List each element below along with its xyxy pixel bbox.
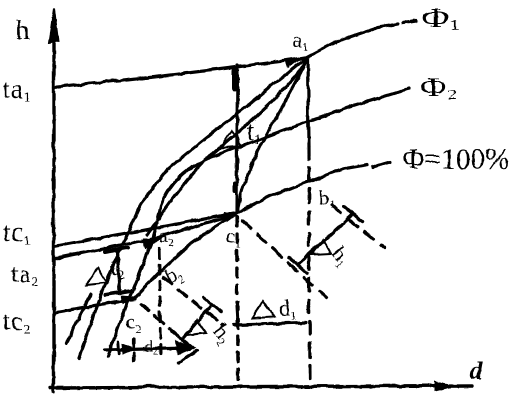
svg-text:tc2: tc2 <box>2 306 31 337</box>
delta d1 left serif <box>236 306 237 322</box>
delta h1 triangle <box>311 239 330 254</box>
delta d2 shaft <box>104 347 190 349</box>
process line a1 to c1 <box>236 57 306 212</box>
vertical dashed below c1 <box>236 216 237 382</box>
dashed isenthalp through b1 <box>331 205 384 248</box>
isotherm tc1 line <box>53 212 236 246</box>
phi100 label dash <box>372 161 389 166</box>
svg-text:c1: c1 <box>225 224 240 250</box>
fan line a1 to a2 <box>146 60 305 234</box>
delta h1 measure line <box>297 214 352 264</box>
arrow on ta1 near a1 <box>285 60 297 67</box>
delta h2 measure line <box>181 304 211 339</box>
x axis d <box>50 385 471 387</box>
delta d2 arrow overdraw stroke <box>178 350 196 362</box>
vertical line through a1 dashed part <box>308 145 309 384</box>
h1 measure bottom tick <box>289 257 306 272</box>
svg-text:a2: a2 <box>158 223 173 249</box>
svg-text:h: h <box>15 14 29 44</box>
dashed vertical through a2 <box>158 248 160 358</box>
vertical line through a1 solid part <box>307 57 308 145</box>
arrowhead at c2 <box>120 295 135 303</box>
y axis h <box>51 14 54 391</box>
svg-text:ta1: ta1 <box>2 74 31 105</box>
svg-text:a1: a1 <box>292 27 307 53</box>
svg-text:Φ1: Φ1 <box>421 2 459 33</box>
svg-text:t1: t1 <box>246 116 260 147</box>
h2 measure top tick <box>203 297 220 311</box>
dashed isenthalp through c2 <box>140 304 196 350</box>
svg-text:c2: c2 <box>125 309 140 335</box>
delta t2 triangle <box>85 267 106 284</box>
isotherm ta1 line <box>53 57 305 87</box>
y axis arrowhead <box>48 8 57 42</box>
svg-text:Φ=100%: Φ=100% <box>402 142 509 175</box>
delta h2 triangle <box>186 319 205 334</box>
svg-text:Φ2: Φ2 <box>419 71 456 102</box>
vertical measure t1 line solid <box>236 64 237 212</box>
dashed isenthalp through c1 <box>241 220 326 297</box>
svg-text:ta2: ta2 <box>11 261 38 288</box>
curve phi1 <box>78 23 397 357</box>
phi1 label dash <box>402 20 415 22</box>
svg-text:b1: b1 <box>318 185 335 211</box>
x axis arrowhead <box>434 381 454 390</box>
nub on vertical at 185 <box>232 182 236 190</box>
delta d1 triangle <box>252 300 274 317</box>
svg-text:tc1: tc1 <box>2 217 31 248</box>
isotherm tc2 line <box>53 298 134 312</box>
t2 measure top tick <box>104 247 127 251</box>
curve phi100 saturation <box>134 164 367 297</box>
serif tick top of t1 measure <box>231 70 237 88</box>
delta d1 horizontal line <box>233 322 305 324</box>
bottom left hatch stroke <box>66 293 90 342</box>
svg-text:d2: d2 <box>144 338 157 357</box>
t2 measure bottom tick <box>105 290 130 294</box>
svg-text:d1: d1 <box>278 295 296 322</box>
dashed isenthalp through b2 <box>162 277 222 324</box>
delta t2 measure vertical <box>117 250 119 291</box>
delta d2 small arrowhead at c2 vertical <box>121 343 134 353</box>
arrowhead at a2 <box>142 238 158 248</box>
delta t1 triangle <box>219 130 241 148</box>
svg-text:h1: h1 <box>325 241 356 270</box>
svg-text:d: d <box>469 357 482 384</box>
svg-text:t2: t2 <box>110 251 124 282</box>
curve phi2 <box>107 88 408 356</box>
delta d2 right big arrowhead <box>175 340 194 354</box>
h2 measure bottom tick <box>172 331 190 346</box>
dashed vertical through c2 <box>131 338 134 360</box>
arrowhead at c1 <box>224 212 238 220</box>
svg-text:b2: b2 <box>160 260 186 291</box>
small bar on d2 shaft <box>117 341 118 353</box>
isotherm ta2 line <box>53 214 234 258</box>
h1 measure top tick <box>344 206 361 221</box>
